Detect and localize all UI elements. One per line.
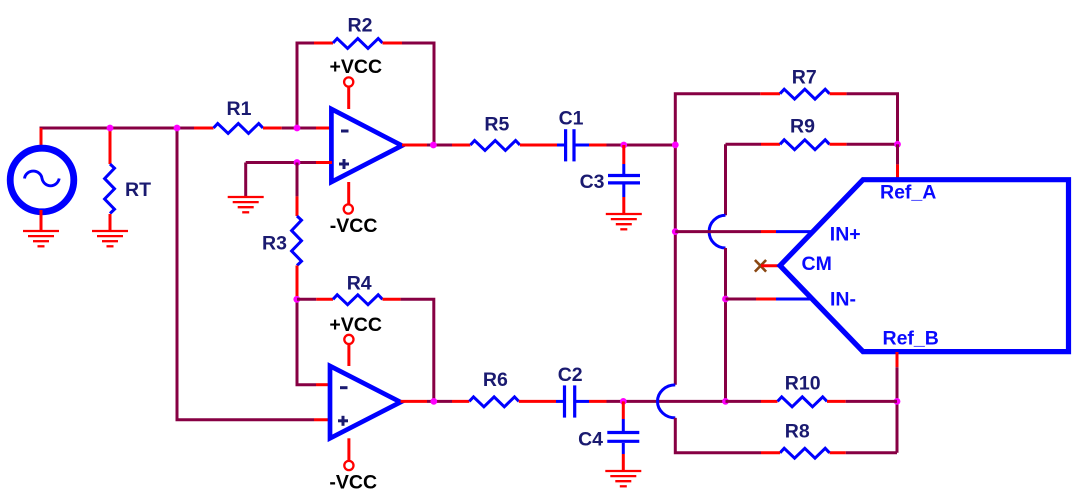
wire IN+ row maroon <box>675 230 761 233</box>
ADC device U3 polygon <box>780 180 1069 352</box>
node junction busB IN- <box>722 296 729 303</box>
node junction R3-R4 <box>293 296 300 303</box>
ground at opamp1 plus <box>228 197 264 212</box>
wire R7 to right bus maroon <box>847 94 898 145</box>
svg-text:CM: CM <box>802 253 832 275</box>
ground under C3 <box>606 214 642 229</box>
wire R4 right lead red <box>383 298 401 301</box>
node junction C1-C3 <box>620 142 627 149</box>
terminal +VCC opamp2 <box>344 335 353 344</box>
wire RefA stub red <box>896 164 899 179</box>
node junction output2 <box>430 398 437 405</box>
resistor R5 <box>470 141 520 151</box>
resistor R6 <box>469 397 519 407</box>
wire bus B vertical maroon upper <box>724 144 727 215</box>
svg-text:R9: R9 <box>790 115 815 137</box>
wire opamp2 output red <box>401 400 427 403</box>
wire C2 right red <box>589 400 607 403</box>
capacitor C4 <box>607 419 639 454</box>
wire RT top red <box>109 128 112 164</box>
op-amp U2 <box>330 366 401 438</box>
wire R6 left lead red <box>452 400 469 403</box>
wire bus A vertical maroon upper <box>675 94 760 385</box>
wire R6 right lead red <box>519 400 556 403</box>
node junction busA C1 <box>672 142 679 149</box>
wire +VCC stub red <box>347 87 350 109</box>
wire R2 to output vertical maroon <box>402 43 434 145</box>
capacitor C2 <box>556 385 589 417</box>
wire IN- stub red <box>756 298 776 301</box>
wire opamp1 minus stub red <box>316 127 332 130</box>
wire R4 to output vertical maroon <box>401 299 434 401</box>
wire R2 right lead red <box>383 42 403 45</box>
wire R1 right lead red <box>263 127 282 130</box>
node junction busA IN+ <box>672 228 679 235</box>
node junction output1 <box>430 142 437 149</box>
svg-text:-VCC: -VCC <box>330 215 378 237</box>
svg-text:Ref_A: Ref_A <box>880 182 936 204</box>
terminal -VCC opamp1 <box>344 204 353 213</box>
wire C4 bottom red <box>622 454 625 471</box>
wire R10 left lead red <box>761 400 778 403</box>
wire R7 left lead red <box>760 92 780 95</box>
capacitor C3 <box>608 164 640 197</box>
ground under RT <box>92 231 128 246</box>
wire net VIN top rail maroon <box>41 128 194 130</box>
pin IN+ blue lead <box>776 230 812 233</box>
wire RefB down maroon <box>896 367 899 453</box>
node junction R1-R2 <box>294 125 301 132</box>
wire source bottom stub red <box>40 210 43 231</box>
wire C1 to bus maroon <box>607 144 676 147</box>
wire opamp1 output red <box>402 144 427 147</box>
resistor R4 <box>333 295 383 305</box>
wire hop busA over rail blue <box>657 385 675 418</box>
node junction VIN split <box>174 125 181 132</box>
pin IN- blue lead <box>776 298 812 301</box>
svg-text:R2: R2 <box>348 15 373 37</box>
wire R2 left lead red <box>314 42 333 45</box>
wire R5 right lead red <box>520 144 557 147</box>
wire R3 top lead red <box>296 196 299 216</box>
svg-text:R3: R3 <box>262 233 287 255</box>
ground under source <box>23 231 59 246</box>
resistor R7 <box>780 89 830 99</box>
svg-text:Ref_B: Ref_B <box>883 328 939 350</box>
svg-text:+VCC: +VCC <box>330 56 383 78</box>
wire C3 top red <box>622 145 625 164</box>
wire R4 left lead red <box>316 298 333 301</box>
wire C2 to R10 rail maroon <box>607 400 726 403</box>
wire R5 left lead red <box>452 144 470 147</box>
svg-text:+VCC: +VCC <box>329 314 382 336</box>
node junction C2-C4 <box>620 398 627 405</box>
wire CM stub red <box>761 264 779 267</box>
wire output1 maroon <box>427 144 452 147</box>
wire -VCC stub red <box>347 182 350 204</box>
svg-text:R4: R4 <box>347 273 372 295</box>
wire R9 row maroon left <box>726 143 762 146</box>
terminal -VCC opamp2 <box>344 461 353 470</box>
svg-text:C1: C1 <box>559 108 584 130</box>
wire R3 top maroon <box>296 163 299 197</box>
svg-text:IN+: IN+ <box>830 224 861 246</box>
wire RefA down maroon <box>896 144 899 164</box>
wire R9 right lead red <box>830 143 847 146</box>
wire R8 right lead red <box>830 451 846 454</box>
source V1 sine generator <box>10 148 74 212</box>
resistor RT <box>105 164 115 214</box>
wire bus A vertical maroon lower to R8 <box>675 418 761 453</box>
wire R10 to RefB bus maroon <box>846 400 897 403</box>
resistor R3 <box>292 216 302 266</box>
wire to ground opamp1 maroon <box>244 163 247 198</box>
wire feedback R2 left vertical maroon <box>297 43 314 128</box>
wire RT bottom red <box>109 214 112 231</box>
svg-text:IN-: IN- <box>830 289 856 311</box>
resistor R9 <box>780 140 830 150</box>
wire R10 right lead red <box>827 400 846 403</box>
svg-text:C2: C2 <box>558 364 583 386</box>
ground under C4 <box>605 471 641 486</box>
wire C4 top red <box>622 401 625 419</box>
svg-text:C4: C4 <box>578 429 603 451</box>
wire R8 row maroon right <box>846 451 897 454</box>
wire IN- row maroon <box>726 298 757 301</box>
node junction rail R10 <box>722 398 729 405</box>
wire opamp1 plus stub red <box>316 161 332 164</box>
wire opamp1 plus input maroon <box>246 161 316 164</box>
op-amp U1 <box>331 109 402 182</box>
svg-text:C3: C3 <box>580 171 605 193</box>
wire RefB stub red <box>896 352 899 367</box>
resistor R8 <box>780 448 830 458</box>
wire R3 junction to opamp2 minus maroon <box>297 299 316 384</box>
svg-text:R8: R8 <box>785 421 810 443</box>
svg-text:R1: R1 <box>227 98 252 120</box>
wire R7 right lead red <box>830 92 847 95</box>
wire IN+ stub red <box>761 230 776 233</box>
wire R1 to opamp1 minus maroon <box>282 127 316 130</box>
wire R9 left lead red <box>761 143 780 146</box>
wire R10 row maroon left <box>726 400 762 403</box>
wire output2 maroon <box>427 400 452 403</box>
wire opamp2 minus stub red <box>316 383 331 386</box>
node junction plus input R3 <box>294 159 301 166</box>
capacitor C1 <box>557 129 589 161</box>
terminal +VCC opamp1 <box>344 77 353 86</box>
node junction R10-R8-RefB <box>894 398 901 405</box>
node junction R7-R9-RefA <box>894 141 901 148</box>
wire +VCC stub opamp2 red <box>347 344 350 366</box>
wire C3 bottom red <box>622 197 625 214</box>
wire R1 left lead red <box>194 127 214 130</box>
wire -VCC stub opamp2 red <box>347 438 350 460</box>
resistor R10 <box>778 397 828 407</box>
resistor R2 <box>333 39 383 49</box>
wire source top stub red <box>40 128 43 150</box>
svg-text:R10: R10 <box>785 373 821 395</box>
svg-text:-VCC: -VCC <box>329 471 377 493</box>
wire hop busB over IN+ blue <box>709 215 725 248</box>
wire R3 junction to R4 maroon <box>297 298 316 301</box>
node junction VIN-RT <box>107 125 114 132</box>
svg-text:R7: R7 <box>792 66 817 88</box>
wire opamp2 plus stub red <box>314 418 331 421</box>
wire R3 bottom lead red <box>296 266 299 300</box>
svg-text:R6: R6 <box>483 369 508 391</box>
wire R8 left lead red <box>761 451 780 454</box>
wire R9 to right bus maroon <box>847 143 898 146</box>
svg-text:R5: R5 <box>484 114 509 136</box>
resistor R1 <box>214 124 264 134</box>
wire bus B vertical maroon lower <box>724 248 727 401</box>
wire C1 right red <box>589 144 607 147</box>
svg-text:RT: RT <box>125 179 151 201</box>
node CM X marker <box>755 260 766 272</box>
wire left bus down to opamp2 plus input maroon <box>177 128 314 420</box>
